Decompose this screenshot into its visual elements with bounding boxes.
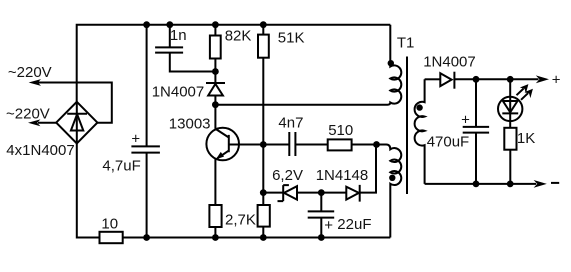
- junction base 51K: [260, 141, 267, 148]
- wire 510 to feedback node: [352, 144, 377, 146]
- svg-text:1n: 1n: [170, 27, 187, 44]
- capacitor C 4,7uF: [131, 25, 160, 238]
- resistor 10: [100, 232, 123, 243]
- junction output top 470uF: [473, 76, 480, 83]
- resistor 51K: [258, 25, 269, 205]
- svg-text:470uF: 470uF: [427, 134, 470, 151]
- junction snubber top: [212, 68, 219, 75]
- T1 feedback phase dot: [389, 175, 395, 181]
- diode D 1N4148: [321, 145, 376, 202]
- junction feedback node: [373, 141, 380, 148]
- zener D 6,2V: [263, 185, 321, 201]
- svg-text:6,2V: 6,2V: [272, 167, 303, 184]
- wire bottom rail: [123, 237, 391, 239]
- svg-text:4,7uF: 4,7uF: [102, 158, 140, 175]
- resistor 1K: [504, 128, 516, 184]
- junction zener left: [260, 189, 267, 196]
- T1 primary phase dot: [388, 60, 394, 66]
- capacitor C 22uF: [308, 193, 335, 238]
- wire bridge minus to bottom rail: [77, 143, 100, 237]
- wire AC line 2: [28, 119, 56, 126]
- T1 secondary winding: [415, 79, 425, 184]
- junction output top LED: [507, 76, 514, 83]
- svg-text:+: +: [552, 71, 561, 88]
- svg-text:82K: 82K: [225, 27, 252, 44]
- T1 feedback winding: [377, 145, 402, 238]
- wire collector node to primary: [215, 104, 387, 106]
- transformer T1 primary winding: [388, 25, 402, 105]
- wire 4n7 to 510: [295, 144, 327, 146]
- resistor zener-node to ground: [258, 205, 270, 238]
- svg-text:T1: T1: [397, 35, 415, 52]
- svg-text:1K: 1K: [517, 130, 535, 147]
- svg-text:1N4148: 1N4148: [316, 167, 369, 184]
- resistor 82K: [210, 25, 221, 72]
- svg-text:51K: 51K: [278, 29, 305, 46]
- junction top rail 51K: [260, 21, 267, 28]
- svg-text:2,7K: 2,7K: [225, 211, 256, 228]
- svg-text:4x1N4007: 4x1N4007: [6, 142, 74, 159]
- junction top rail 82K: [212, 21, 219, 28]
- wire output plus rail: [454, 75, 549, 83]
- T1 secondary phase dot: [416, 104, 422, 110]
- diode D 1N4007 output: [440, 72, 454, 89]
- LED emission arrows: [517, 84, 533, 100]
- resistor 510: [328, 139, 352, 150]
- bridge rectifier 4x1N4007: [56, 102, 97, 144]
- capacitor C 470uF: [461, 79, 489, 184]
- svg-text:+: +: [131, 130, 140, 147]
- svg-text:1N4007: 1N4007: [423, 53, 476, 70]
- svg-text:~220V: ~220V: [8, 64, 52, 81]
- svg-text:+: +: [324, 217, 333, 234]
- capacitor C 1n: [155, 25, 215, 72]
- svg-text:10: 10: [101, 216, 118, 233]
- transistor Q 13003: [206, 105, 239, 205]
- svg-text:510: 510: [328, 122, 353, 139]
- junction top rail 4,7uF: [143, 21, 150, 28]
- capacitor C 4n7: [289, 132, 295, 156]
- wire output minus rail: [425, 180, 547, 188]
- wire base node: [229, 144, 289, 146]
- junction collector node: [212, 101, 219, 108]
- svg-text:~220V: ~220V: [6, 105, 50, 122]
- junction bottom rail 51K line: [260, 234, 267, 241]
- diode D 1N4007 snubber: [206, 72, 225, 105]
- junction zener 22uF: [318, 189, 325, 196]
- label output minus: [551, 182, 559, 184]
- svg-text:22uF: 22uF: [337, 216, 371, 233]
- svg-text:13003: 13003: [169, 116, 211, 133]
- T1 core: [406, 57, 408, 195]
- wire left rail top: [77, 25, 391, 102]
- junction output bottom 470uF: [473, 181, 480, 188]
- junction bottom rail emitter: [212, 234, 219, 241]
- wire secondary to output diode: [425, 78, 441, 80]
- svg-text:4n7: 4n7: [278, 115, 303, 132]
- junction bottom rail 4,7uF: [143, 234, 150, 241]
- wire AC line 1: [29, 79, 112, 123]
- LED D: [498, 79, 522, 128]
- junction output bottom LED: [507, 181, 514, 188]
- junction bottom rail 22uF: [318, 234, 325, 241]
- svg-text:+: +: [461, 112, 470, 129]
- svg-text:1N4007: 1N4007: [152, 84, 205, 101]
- resistor emitter 2,7K: [209, 205, 221, 238]
- junction top rail 1n: [166, 21, 173, 28]
